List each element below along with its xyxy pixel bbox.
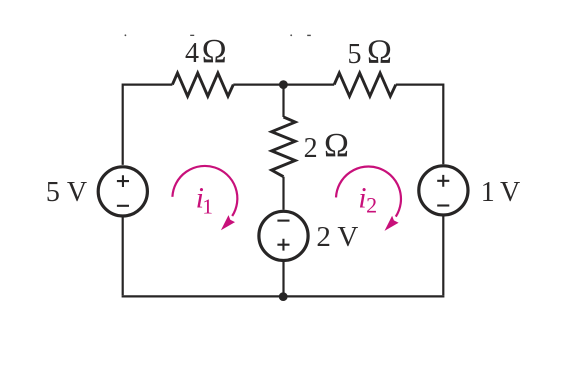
voltage source V3 2V circle bbox=[259, 211, 308, 260]
label 1 V bbox=[481, 177, 521, 208]
svg-text:2: 2 bbox=[366, 193, 377, 218]
wire right-bottom segment bbox=[442, 217, 444, 296]
label 5 ohm bbox=[348, 33, 392, 70]
svg-text:Ω: Ω bbox=[324, 127, 349, 164]
V1 minus sign bbox=[117, 205, 129, 207]
resistor R1 4ohm bbox=[172, 73, 233, 96]
svg-text:Ω: Ω bbox=[367, 33, 392, 70]
mesh current arrow i2 bbox=[336, 167, 401, 231]
svg-text:1: 1 bbox=[202, 195, 213, 219]
wire bottom segment bbox=[122, 295, 445, 297]
voltage source V2 1V circle bbox=[419, 166, 468, 215]
wire top-right segment bbox=[396, 85, 444, 165]
svg-text:V: V bbox=[67, 177, 87, 208]
resistor R3 2ohm bbox=[272, 117, 296, 177]
voltage source V1 5V circle bbox=[98, 167, 147, 216]
node B bottom junction dot bbox=[279, 292, 288, 301]
svg-text:V: V bbox=[500, 177, 520, 208]
V2 minus sign bbox=[437, 204, 449, 206]
label i2 bbox=[358, 181, 377, 217]
resistor R2 5ohm bbox=[334, 73, 396, 96]
svg-text:2: 2 bbox=[316, 221, 331, 253]
svg-text:V: V bbox=[337, 221, 358, 253]
label 4 ohm bbox=[185, 33, 227, 70]
mesh current arrow i1 bbox=[172, 166, 237, 230]
svg-text:5: 5 bbox=[46, 177, 60, 208]
svg-text:2: 2 bbox=[304, 133, 318, 164]
svg-text:5: 5 bbox=[348, 39, 362, 70]
label 2 ohm bbox=[304, 127, 349, 164]
wire left-bottom segment bbox=[122, 218, 124, 296]
V1 plus sign bbox=[117, 175, 129, 187]
label i1 bbox=[196, 182, 213, 219]
wire middle-bottom segment bbox=[282, 262, 284, 296]
wire middle between resistor and source bbox=[282, 177, 284, 210]
V3 minus sign bbox=[277, 220, 289, 222]
node A top junction dot bbox=[279, 80, 288, 89]
wire top-middle segment bbox=[233, 83, 334, 85]
svg-text:4: 4 bbox=[185, 38, 199, 69]
svg-text:1: 1 bbox=[481, 177, 495, 208]
V2 plus sign bbox=[437, 175, 449, 187]
label 2 V bbox=[316, 221, 358, 253]
svg-text:Ω: Ω bbox=[202, 33, 227, 70]
stray print artifact dots bbox=[125, 34, 311, 36]
label 5 V bbox=[46, 177, 87, 208]
V3 plus sign bbox=[277, 239, 289, 251]
wire top-left segment bbox=[123, 85, 173, 165]
wire middle-top segment bbox=[282, 85, 284, 117]
